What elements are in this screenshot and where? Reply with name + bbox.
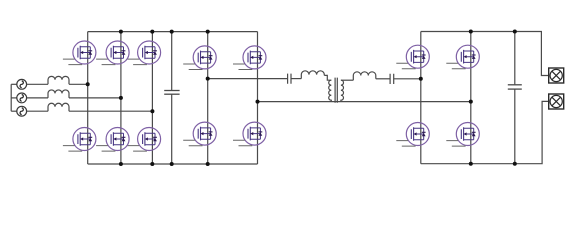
node: phase C <box>150 109 154 113</box>
wire: H-bridge right leg 1 <box>420 32 422 164</box>
wire: C2 to right bridge leg 1 <box>394 78 421 80</box>
wire: rectifier leg 3 <box>151 32 153 164</box>
wire: bottom DC rail left <box>88 163 258 165</box>
wire: top link path to series cap C1 <box>208 78 288 80</box>
inductor Lc <box>48 103 69 111</box>
wire: top DC rail left <box>88 31 258 33</box>
node: bottom rail H-right leg2 <box>469 162 473 166</box>
MOSFET Q2 <box>233 46 266 70</box>
wire: phase C to leg 3 <box>69 110 152 112</box>
transformer T1 primary winding <box>329 80 332 101</box>
wire: stub bus to source Vb <box>11 97 17 99</box>
node: phase B <box>119 96 123 100</box>
node: top rail leg3 <box>150 30 154 34</box>
MOSFET Q1 <box>183 46 216 70</box>
node: H-right leg1 midpoint <box>419 77 423 81</box>
transformer T1 secondary winding <box>341 80 344 101</box>
node: phase A <box>86 82 90 86</box>
wire: C1 to inductor L1 <box>291 78 301 80</box>
wire: phase A to leg 1 <box>69 83 88 85</box>
node: H-left leg1 midpoint <box>206 77 210 81</box>
wire: rectifier leg 1 <box>87 32 89 164</box>
wire: secondary top lead <box>341 79 353 81</box>
MOSFET Q6 <box>446 45 479 69</box>
MOSFET S6 <box>128 128 161 152</box>
terminal X1 <box>549 68 564 83</box>
wire: Vb to inductor Lb <box>27 97 48 99</box>
wire: L2 to series cap C2 <box>376 78 390 80</box>
inductor Lb <box>48 90 69 98</box>
wire: stub bus to source Va <box>11 83 17 85</box>
wire: Vc to inductor Lc <box>27 110 48 112</box>
capacitor C2 <box>390 74 394 84</box>
node: H-left leg2 midpoint <box>256 100 260 104</box>
MOSFET Q5 <box>396 45 429 69</box>
MOSFET S1 <box>63 41 96 65</box>
wire: Va to inductor La <box>27 83 48 85</box>
MOSFET S5 <box>96 128 129 152</box>
wire: Cdc to top rail <box>171 32 173 91</box>
wire: H-bridge right leg 2 <box>470 32 472 164</box>
node: top rail H-left leg1 <box>206 30 210 34</box>
MOSFET Q7 <box>396 123 429 147</box>
MOSFET S2 <box>96 41 129 65</box>
wire: bottom link path <box>258 101 471 103</box>
wire: top DC rail right with drop to terminal 1 <box>421 32 549 76</box>
MOSFET Q8 <box>446 123 479 147</box>
node: top rail leg2 <box>119 30 123 34</box>
MOSFET Q3 <box>183 122 216 146</box>
node: H-right leg2 midpoint <box>469 100 473 104</box>
terminal X2 <box>549 94 564 109</box>
MOSFET Q4 <box>233 122 266 146</box>
node: top rail Co <box>513 30 517 34</box>
wire: L1 jog down to transformer primary <box>324 75 331 80</box>
inductor L1 <box>301 71 324 79</box>
wire: phase B to leg 2 <box>69 97 121 99</box>
wire: stub bus to source Vc <box>11 110 17 112</box>
inductor La <box>48 76 69 84</box>
MOSFET S4 <box>63 128 96 152</box>
wire: AC neutral bus <box>10 84 12 111</box>
wire: H-bridge left leg 1 <box>207 32 209 164</box>
capacitor Cdc plate bottom <box>164 93 179 95</box>
AC source Vb <box>17 93 27 103</box>
MOSFET S3 <box>128 41 161 65</box>
AC source Vc <box>17 106 27 116</box>
node: bottom rail Cdc <box>170 162 174 166</box>
node: top rail Cdc <box>170 30 174 34</box>
inductor L2 <box>353 72 376 80</box>
node: bottom rail leg3 <box>150 162 154 166</box>
capacitor Co plate bottom <box>508 88 522 90</box>
wire: Cdc to bottom rail <box>171 95 173 165</box>
wire: output cap Co to bottom rail <box>514 89 516 163</box>
transformer T1 core <box>335 78 337 103</box>
node: bottom rail leg2 <box>119 162 123 166</box>
capacitor Co plate top <box>508 84 522 86</box>
wire: rectifier leg 2 <box>120 32 122 164</box>
AC source Va <box>17 79 27 89</box>
node: bottom rail Co <box>513 162 517 166</box>
node: bottom rail H-left leg1 <box>206 162 210 166</box>
wire: bottom DC rail right with rise to terminal 2 <box>421 101 549 163</box>
wire: H-bridge left leg 2 <box>257 32 259 164</box>
capacitor Cdc plate top <box>164 90 179 92</box>
wire: output cap Co to top rail <box>514 32 516 85</box>
capacitor C1 <box>288 74 291 84</box>
node: top rail H-right leg2 <box>469 30 473 34</box>
